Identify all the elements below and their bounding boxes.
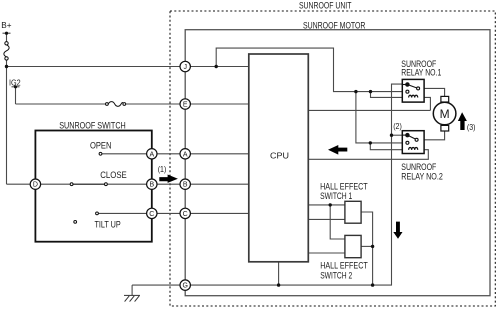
svg-text:E: E: [183, 102, 188, 109]
svg-text:RELAY NO.2: RELAY NO.2: [401, 171, 443, 181]
svg-text:SUNROOF SWITCH: SUNROOF SWITCH: [59, 120, 126, 130]
svg-text:RELAY NO.1: RELAY NO.1: [401, 67, 441, 77]
svg-text:B+: B+: [1, 21, 11, 30]
svg-text:J: J: [183, 64, 187, 71]
svg-text:C: C: [149, 211, 154, 218]
svg-text:OPEN: OPEN: [90, 141, 112, 151]
svg-text:HALL EFFECT: HALL EFFECT: [320, 261, 368, 271]
svg-text:TILT UP: TILT UP: [94, 220, 120, 230]
svg-text:A: A: [149, 151, 154, 158]
svg-text:SWITCH 2: SWITCH 2: [320, 271, 352, 281]
svg-text:G: G: [182, 283, 187, 290]
svg-text:CLOSE: CLOSE: [100, 170, 127, 180]
svg-text:B: B: [149, 182, 154, 189]
svg-text:SUNROOF UNIT: SUNROOF UNIT: [299, 0, 352, 10]
svg-text:(1): (1): [158, 165, 167, 174]
svg-text:M: M: [440, 107, 450, 121]
svg-text:A: A: [183, 151, 188, 158]
svg-text:D: D: [33, 182, 38, 189]
svg-text:(3): (3): [467, 123, 476, 132]
svg-text:B: B: [183, 182, 188, 189]
svg-text:HALL EFFECT: HALL EFFECT: [320, 181, 368, 191]
svg-text:(2): (2): [393, 122, 402, 131]
svg-text:SUNROOF MOTOR: SUNROOF MOTOR: [303, 21, 366, 31]
svg-text:C: C: [183, 211, 188, 218]
svg-text:CPU: CPU: [270, 150, 289, 160]
svg-text:IG2: IG2: [9, 78, 21, 87]
svg-text:SWITCH 1: SWITCH 1: [320, 191, 352, 201]
